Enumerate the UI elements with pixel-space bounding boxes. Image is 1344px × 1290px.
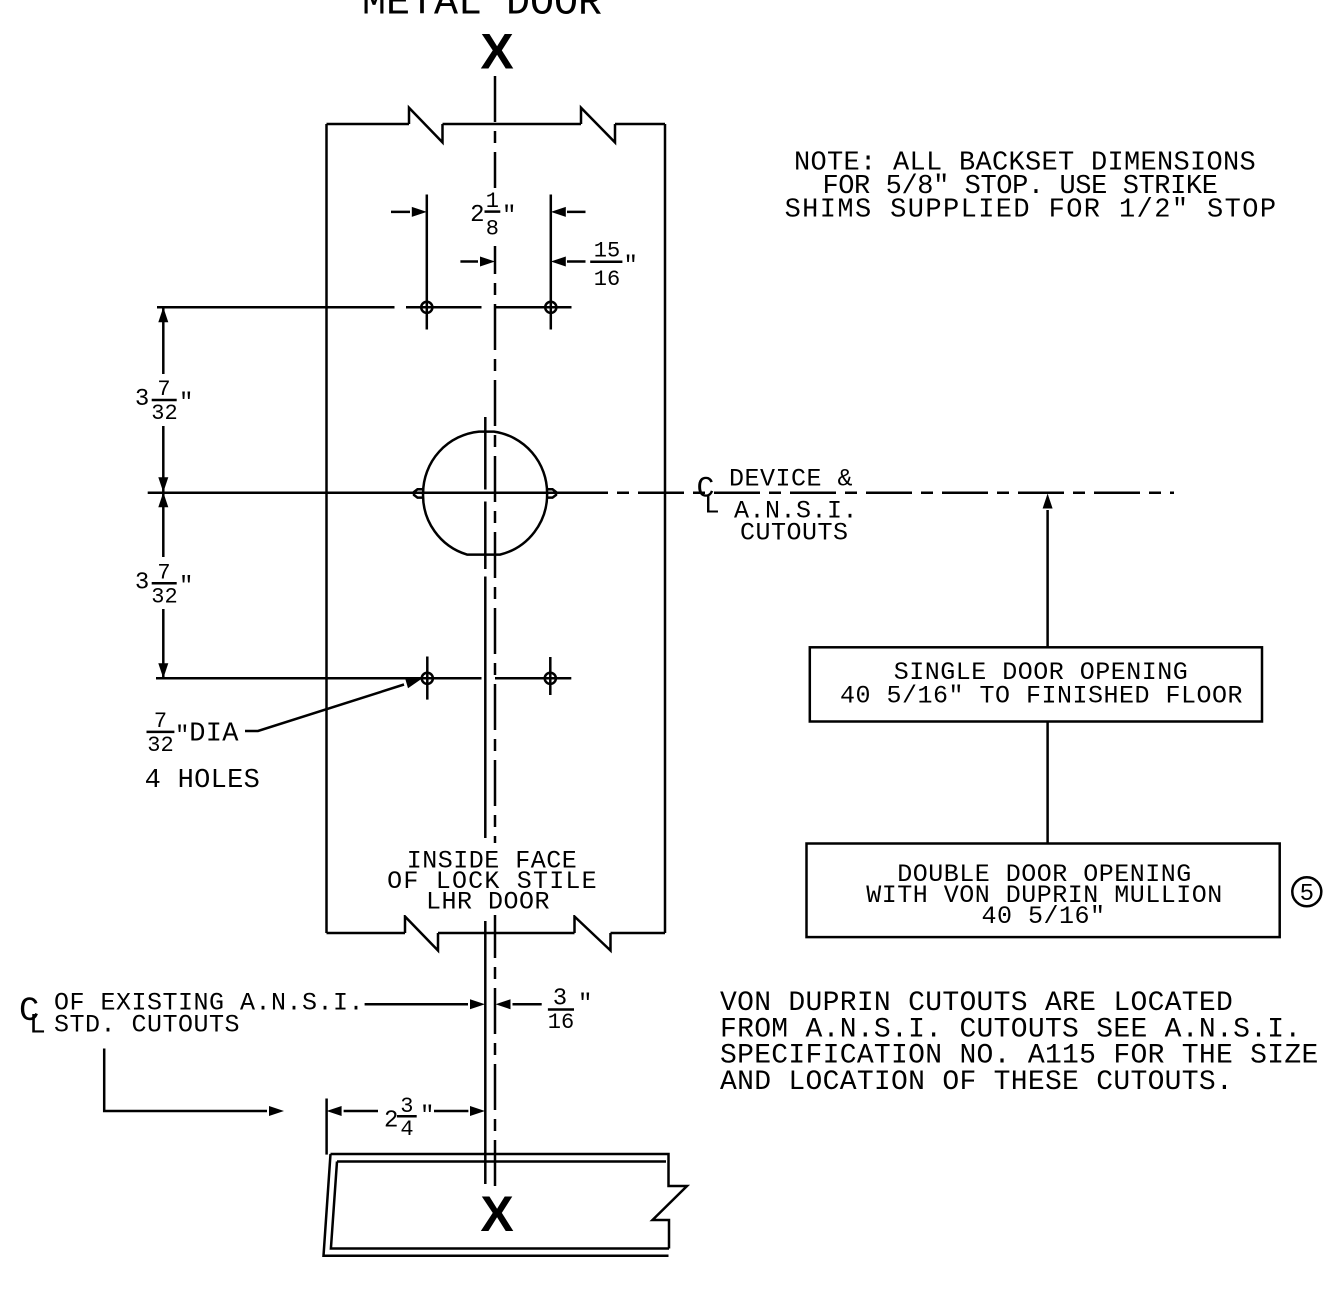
ANSI cutout centerline vertical (long dash) (484, 417, 487, 1184)
leader to ANSI line with arrows (365, 1003, 468, 1006)
label 3 7/32" lower (128, 557, 196, 609)
extension line top right hole (550, 195, 553, 330)
ANSI cylinder circle (423, 432, 547, 555)
svg-text:40 5/16" TO FINISHED FLOOR: 40 5/16" TO FINISHED FLOOR (840, 682, 1243, 711)
hole top left (421, 302, 432, 313)
svg-text:METAL DOOR: METAL DOOR (362, 0, 602, 27)
svg-text:7: 7 (154, 709, 167, 734)
left dim chain vertical line (162, 307, 165, 678)
svg-text:": " (179, 390, 193, 417)
label 3 7/32" upper (128, 374, 196, 426)
svg-text:5: 5 (1300, 881, 1314, 908)
svg-text:4: 4 (400, 1117, 413, 1142)
extension line door edge (325, 1099, 328, 1155)
dim 2 1/8 arrows (391, 211, 410, 214)
svg-text:7: 7 (157, 560, 170, 585)
svg-text:": " (578, 991, 592, 1018)
svg-text:": " (179, 573, 193, 600)
svg-text:3: 3 (135, 569, 149, 596)
white mask for stile text (398, 843, 598, 915)
svg-text:": " (502, 203, 516, 230)
stile top edge segments (327, 123, 666, 126)
box SINGLE DOOR OPENING (810, 647, 1262, 721)
svg-text:LHR DOOR: LHR DOOR (426, 888, 550, 917)
door bottom inner outline (337, 1160, 666, 1163)
svg-text:STD. CUTOUTS: STD. CUTOUTS (54, 1011, 240, 1040)
stile outline left edge (325, 124, 328, 933)
svg-text:2: 2 (384, 1108, 398, 1135)
svg-text:CUTOUTS: CUTOUTS (740, 519, 849, 548)
circled 5 (1292, 877, 1321, 906)
svg-text:32: 32 (147, 733, 173, 758)
vertical connector to boxes with up arrow (1046, 510, 1049, 844)
break symbol bottom left (405, 917, 438, 951)
right tab (547, 489, 557, 497)
svg-text:16: 16 (548, 1010, 574, 1035)
svg-text:L: L (704, 491, 720, 521)
svg-text:7: 7 (157, 377, 170, 402)
hole top right (545, 302, 556, 313)
door bottom outer outline (331, 1154, 688, 1249)
stile bottom edge segments (327, 932, 666, 935)
svg-text:DEVICE &: DEVICE & (729, 465, 853, 494)
svg-text:L: L (29, 1011, 46, 1042)
hole centerline row bottom (156, 677, 571, 680)
extension line top left hole (426, 195, 429, 330)
hole centerline row top (157, 306, 572, 309)
device centerline vertical (dash-dot) (494, 76, 497, 1188)
svg-text:": " (420, 1103, 434, 1130)
svg-text:": " (175, 723, 189, 750)
dim 15/16 arrows (460, 260, 478, 263)
svg-text:SHIMS SUPPLIED FOR 1/2" STOP: SHIMS SUPPLIED FOR 1/2" STOP (785, 196, 1278, 226)
horizontal device centerline (148, 492, 562, 495)
break symbol top right (581, 108, 615, 143)
dim 2 3/4 (327, 1106, 342, 1116)
label 2 1/8" (466, 188, 516, 246)
svg-text:AND LOCATION OF THESE CUTOUTS.: AND LOCATION OF THESE CUTOUTS. (720, 1067, 1233, 1098)
svg-text:16: 16 (594, 267, 620, 292)
svg-text:32: 32 (151, 401, 177, 426)
svg-text:DIA: DIA (189, 719, 239, 749)
hole bottom left (422, 673, 433, 684)
svg-text:15: 15 (594, 239, 620, 264)
svg-text:X: X (480, 24, 513, 80)
break symbol bottom right (575, 917, 611, 951)
svg-text:40 5/16": 40 5/16" (981, 902, 1105, 931)
stile outline right edge (664, 124, 667, 933)
hole bottom right (545, 673, 556, 684)
svg-text:": " (624, 253, 638, 280)
svg-text:8: 8 (486, 217, 499, 242)
break symbol top left (409, 108, 443, 143)
svg-text:2: 2 (470, 202, 484, 229)
svg-text:1: 1 (486, 189, 499, 214)
left tab (414, 489, 424, 497)
leader 7/32 DIA to hole (245, 685, 404, 732)
svg-text:X: X (480, 1186, 513, 1242)
box DOUBLE DOOR OPENING (807, 844, 1280, 938)
svg-text:4 HOLES: 4 HOLES (145, 766, 261, 796)
svg-text:32: 32 (151, 584, 177, 609)
bent leader from STD CUTOUTS (104, 1049, 267, 1112)
svg-text:3: 3 (135, 386, 149, 413)
